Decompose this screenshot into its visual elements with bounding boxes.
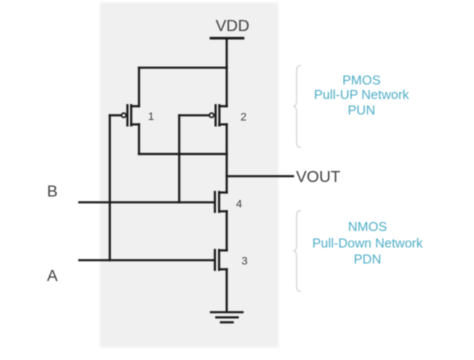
svg-text:Pull-UP Network: Pull-UP Network <box>314 87 410 102</box>
wire input A <box>79 259 215 261</box>
brace PUN <box>293 66 301 148</box>
svg-text:NMOS: NMOS <box>348 219 387 234</box>
svg-text:PMOS: PMOS <box>342 73 381 88</box>
VDD power rail bar <box>211 37 243 40</box>
wire 1 drain vertical <box>138 68 140 107</box>
transistor 2 PMOS <box>179 105 227 125</box>
svg-text:VDD: VDD <box>216 18 250 35</box>
svg-text:VOUT: VOUT <box>296 169 341 186</box>
svg-text:B: B <box>47 184 58 201</box>
svg-text:1: 1 <box>148 111 154 123</box>
svg-text:PDN: PDN <box>354 252 381 267</box>
svg-text:PUN: PUN <box>348 103 375 118</box>
wire 1 source to pmos bottom rail <box>138 124 140 154</box>
wire 4 source to 3 drain <box>226 211 228 250</box>
wire A to 1 gate <box>109 115 111 260</box>
svg-text:3: 3 <box>241 255 247 267</box>
wire 3 source to ground <box>226 269 228 311</box>
wire VDD to node 2 drain <box>226 38 228 106</box>
transistor 1 PMOS <box>110 105 139 125</box>
wire VOUT <box>227 175 293 177</box>
panel background <box>100 3 279 348</box>
svg-text:4: 4 <box>236 199 242 211</box>
transistor 3 NMOS <box>215 250 227 270</box>
svg-text:Pull-Down Network: Pull-Down Network <box>312 236 423 251</box>
wire B to 2 gate <box>178 115 180 202</box>
wire output trunk <box>226 124 228 192</box>
ground <box>211 312 243 322</box>
svg-text:A: A <box>47 268 58 285</box>
transistor 4 NMOS <box>215 192 227 212</box>
wire top rail <box>139 67 227 69</box>
wire input B <box>79 201 215 203</box>
brace PDN <box>293 211 301 292</box>
wire pmos bottom rail <box>139 153 227 155</box>
svg-text:2: 2 <box>240 111 246 123</box>
